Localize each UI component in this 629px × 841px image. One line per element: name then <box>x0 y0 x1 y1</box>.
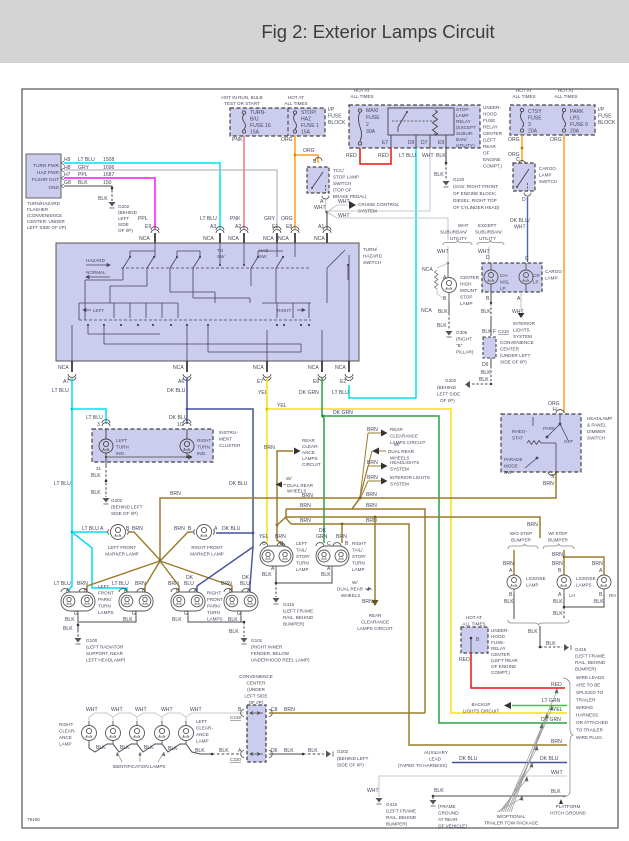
wire BRN to right tail lamp B <box>341 524 343 543</box>
svg-text:PNK: PNK <box>232 137 243 143</box>
svg-text:WHT: WHT <box>111 707 123 713</box>
svg-text:NCA: NCA <box>58 365 69 371</box>
svg-text:RIGHT: RIGHT <box>207 591 221 596</box>
svg-text:79166: 79166 <box>27 817 40 822</box>
svg-text:CLEARANCE: CLEARANCE <box>390 434 418 439</box>
svg-text:STOP: STOP <box>460 295 472 300</box>
G202 flasher ground label <box>118 204 138 233</box>
svg-text:NCA: NCA <box>228 236 239 242</box>
svg-text:D: D <box>486 255 490 261</box>
step bumper labels <box>510 531 569 543</box>
svg-text:LEFT: LEFT <box>196 719 207 724</box>
svg-text:BLK: BLK <box>553 611 563 617</box>
svg-text:E7: E7 <box>257 379 263 385</box>
svg-text:(CONVENIENCE: (CONVENIENCE <box>27 213 62 218</box>
svg-text:BLOCK: BLOCK <box>598 120 616 126</box>
svg-text:HEADLAMP: HEADLAMP <box>587 416 612 421</box>
svg-text:BLK: BLK <box>229 629 239 635</box>
wire BRN to left tail lamp B <box>277 525 284 546</box>
svg-text:SYSTEM: SYSTEM <box>390 467 409 472</box>
svg-text:TAIL/: TAIL/ <box>352 548 363 553</box>
svg-text:TURN-: TURN- <box>250 110 266 116</box>
wire ORG park fuse down to headlamp switch H <box>563 135 565 413</box>
svg-text:WHT: WHT <box>338 199 350 205</box>
svg-text:HOT IN RUN, BULB: HOT IN RUN, BULB <box>221 95 262 100</box>
WHT chain wires <box>89 713 244 721</box>
svg-text:G202: G202 <box>118 204 130 209</box>
svg-text:OF I/P): OF I/P) <box>249 700 264 705</box>
svg-text:LEFT HEADLAMP): LEFT HEADLAMP) <box>86 658 126 663</box>
brace left <box>443 240 472 245</box>
lamp LEFT FRONT PARK/TURN 1 <box>61 589 95 616</box>
relay caption STOP-LAMP RELAY <box>456 107 476 148</box>
cluster internal line with arrow <box>106 455 192 459</box>
switch caption <box>363 247 383 265</box>
svg-text:I/P: I/P <box>598 107 605 113</box>
svg-text:DK GRN: DK GRN <box>541 717 561 723</box>
svg-text:LICENSE: LICENSE <box>576 576 596 581</box>
svg-text:D6: D6 <box>271 748 278 754</box>
svg-text:GROUND:: GROUND: <box>438 811 460 816</box>
svg-text:BRN: BRN <box>367 427 378 433</box>
svg-text:LAMPS: LAMPS <box>207 617 223 622</box>
svg-text:A: A <box>443 275 447 281</box>
svg-text:FUSE: FUSE <box>598 114 612 120</box>
svg-text:LEFT FRONT: LEFT FRONT <box>108 545 136 550</box>
ground G101 <box>241 638 248 643</box>
svg-text:DIESEL: RIGHT TOP: DIESEL: RIGHT TOP <box>453 198 497 203</box>
ground G305 <box>446 331 453 336</box>
svg-text:BRN: BRN <box>551 739 562 745</box>
svg-text:1508: 1508 <box>103 157 114 163</box>
svg-text:BLK: BLK <box>546 641 556 647</box>
svg-text:STOP LAMP: STOP LAMP <box>333 175 359 180</box>
identification lamp 4 <box>155 721 170 744</box>
lamp RIGHT FRONT PARK/TURN 4 <box>224 589 258 616</box>
svg-text:COMPT.): COMPT.) <box>491 670 510 675</box>
svg-text:3: 3 <box>528 122 531 128</box>
svg-text:STAT: STAT <box>512 436 523 441</box>
svg-text:BRN: BRN <box>170 491 181 497</box>
svg-text:SUBUR-: SUBUR- <box>456 131 474 136</box>
I/P fuse block dashed box (right) <box>510 105 595 135</box>
fuse CTSY FUSE 3 20A <box>520 108 523 132</box>
svg-text:DK BLU: DK BLU <box>229 481 248 487</box>
svg-text:(TOP OF: (TOP OF <box>333 188 352 193</box>
svg-text:SIDE OF I/P): SIDE OF I/P) <box>111 511 138 516</box>
svg-text:BLK: BLK <box>98 196 108 202</box>
junction dot LT BLU at 409 <box>71 408 74 411</box>
svg-text:HOOD: HOOD <box>483 112 497 117</box>
svg-text:MSL: MSL <box>500 280 510 285</box>
svg-text:G305: G305 <box>456 330 468 335</box>
junction dot WHT chmsl <box>447 262 450 265</box>
feeds from top pins to row1 <box>130 243 295 265</box>
junction dot WHT <box>326 211 329 214</box>
svg-text:RAIL, BEHIND: RAIL, BEHIND <box>386 815 417 820</box>
svg-text:ARE TO BE: ARE TO BE <box>576 683 600 688</box>
svg-text:CENTER: CENTER <box>460 275 480 280</box>
w/ dual rear wheels tag (brn fan) <box>372 442 415 461</box>
svg-text:BLK: BLK <box>91 490 101 496</box>
wire BRN left marker B to X <box>129 532 160 560</box>
identification lamp 2 <box>106 721 121 744</box>
svg-text:BRN: BRN <box>135 581 146 587</box>
svg-text:OF VEHICLE): OF VEHICLE) <box>438 824 467 829</box>
svg-text:LICENSE: LICENSE <box>526 576 546 581</box>
svg-text:BRN: BRN <box>264 445 275 451</box>
svg-text:LT BLU: LT BLU <box>399 153 416 159</box>
svg-text:LEFT: LEFT <box>296 541 307 546</box>
caption WIRE LEADS <box>576 675 609 740</box>
svg-text:NCA: NCA <box>308 365 319 371</box>
svg-text:BRN: BRN <box>132 526 143 532</box>
svg-text:MENT: MENT <box>219 437 232 442</box>
flasher caption <box>27 201 67 230</box>
fuse STOP/HAZ FUSE 1 15A <box>293 111 296 133</box>
svg-text:ORG: ORG <box>281 137 293 143</box>
arrow to cruise control system <box>349 201 356 209</box>
turn/hazard flasher box <box>26 154 61 198</box>
svg-text:BLK: BLK <box>284 748 294 754</box>
svg-text:A: A <box>558 592 562 598</box>
svg-text:REAR: REAR <box>302 438 315 443</box>
svg-text:SWITCH: SWITCH <box>587 436 605 441</box>
svg-text:SUBURBAN/: SUBURBAN/ <box>440 230 468 235</box>
svg-text:IND.: IND. <box>116 451 125 456</box>
backup lights arrow + LT GRN <box>463 702 500 714</box>
svg-text:MODE: MODE <box>504 464 518 469</box>
svg-text:LEAD: LEAD <box>429 757 442 762</box>
svg-text:TURN PWR: TURN PWR <box>33 163 59 169</box>
row 2 dots <box>87 324 310 326</box>
svg-text:LT BLU: LT BLU <box>332 390 349 396</box>
svg-text:WHT: WHT <box>422 153 434 159</box>
svg-text:G100: G100 <box>86 638 98 643</box>
caption REAR CLEARANCE LAMPS CIRCUIT (column) <box>357 613 393 631</box>
svg-text:10: 10 <box>177 422 183 428</box>
svg-text:BLK: BLK <box>551 789 561 795</box>
svg-text:RELAY: RELAY <box>483 125 498 130</box>
svg-text:BLK: BLK <box>481 370 491 376</box>
junction dot YEL <box>266 408 269 411</box>
svg-text:TURN: TURN <box>207 610 220 615</box>
bottom pin stubs <box>72 361 349 372</box>
svg-text:WIRING: WIRING <box>576 705 594 710</box>
svg-text:ANCE: ANCE <box>196 732 209 737</box>
svg-text:COMPT.): COMPT.) <box>483 164 502 169</box>
svg-text:(UNDER LEFT: (UNDER LEFT <box>500 353 531 358</box>
svg-text:TURN: TURN <box>296 561 309 566</box>
ground G120 <box>443 181 450 186</box>
svg-text:SIDE: SIDE <box>118 222 129 227</box>
HAZARD / NORMAL labels <box>86 258 110 279</box>
wire PNK fuse16 to switch A2 <box>243 136 245 229</box>
svg-text:CLUSTER: CLUSTER <box>219 443 241 448</box>
left clearance lamp 5 <box>179 721 194 744</box>
svg-text:WHT: WHT <box>437 249 449 255</box>
svg-text:OF I/P): OF I/P) <box>440 398 455 403</box>
svg-text:LT GRN: LT GRN <box>542 698 561 704</box>
svg-text:A3: A3 <box>210 224 216 230</box>
svg-text:C210: C210 <box>498 329 509 334</box>
lamp RIGHT FRONT PARK/TURN 3 <box>171 589 205 616</box>
svg-text:HIGH: HIGH <box>460 282 471 287</box>
svg-text:YEL: YEL <box>259 534 269 540</box>
svg-text:BUMPER: BUMPER <box>548 538 568 543</box>
svg-text:G415: G415 <box>575 647 587 652</box>
svg-text:MAXI: MAXI <box>366 108 378 114</box>
svg-text:LEFT: LEFT <box>116 438 127 443</box>
svg-text:HOT AT: HOT AT <box>558 88 574 93</box>
svg-text:(LEFT: (LEFT <box>483 138 496 143</box>
wire BRN W/ step split <box>563 550 565 557</box>
svg-text:PNK: PNK <box>230 216 241 222</box>
svg-text:WHT: WHT <box>190 707 202 713</box>
svg-text:OFF: OFF <box>564 439 573 444</box>
svg-text:& PANEL: & PANEL <box>587 423 607 428</box>
svg-text:BACKUP: BACKUP <box>472 702 491 707</box>
svg-text:BRN: BRN <box>543 481 554 487</box>
wire DK GRN branch right <box>323 416 567 723</box>
wire BRN rear clearance column <box>374 517 376 600</box>
svg-text:LP: LP <box>500 286 506 291</box>
svg-text:SW: SW <box>217 254 225 259</box>
license lamp LH <box>557 575 571 594</box>
svg-text:D6: D6 <box>482 362 489 368</box>
svg-text:BLK: BLK <box>65 617 75 623</box>
wire LT GRN backup stub <box>512 705 567 707</box>
wire ORG branch to TCC switch B <box>295 155 318 163</box>
svg-text:WHT: WHT <box>551 770 563 776</box>
svg-text:G415: G415 <box>283 602 295 607</box>
svg-text:CENTER: CENTER <box>491 652 511 657</box>
svg-text:OF I/P): OF I/P) <box>118 228 133 233</box>
svg-text:BLU: BLU <box>240 581 250 587</box>
svg-text:BLK: BLK <box>195 748 205 754</box>
svg-text:BLK: BLK <box>262 572 272 578</box>
instrument cluster dashed box <box>92 429 213 462</box>
svg-text:2: 2 <box>366 122 369 128</box>
wire BLK tail lamps to G415 <box>276 571 332 583</box>
svg-text:TRAILER: TRAILER <box>576 698 596 703</box>
svg-text:"B": "B" <box>456 343 463 348</box>
switch interior row 1 (hazard contacts) <box>121 250 345 268</box>
svg-text:BRN: BRN <box>366 503 377 509</box>
svg-text:ANCE: ANCE <box>302 450 315 455</box>
svg-text:BUMPER): BUMPER) <box>575 667 597 672</box>
wire LT BLU A7 long run down left <box>69 378 72 592</box>
svg-text:BRN: BRN <box>275 534 286 540</box>
wire WHT suburban branch <box>447 232 449 240</box>
w/ dual rear wheels (left column) <box>276 476 314 494</box>
svg-text:SWITCH: SWITCH <box>333 181 351 186</box>
svg-text:FUSE 1: FUSE 1 <box>301 123 319 129</box>
wire PPL 1687 flasher to switch E9 <box>64 178 155 229</box>
I/P fuse block dashed box <box>230 108 325 136</box>
svg-text:FUSE 16: FUSE 16 <box>250 123 271 129</box>
svg-text:NCA: NCA <box>335 365 346 371</box>
svg-text:LEFT SIDE: LEFT SIDE <box>437 392 460 397</box>
svg-text:WHT: WHT <box>514 225 526 231</box>
svg-text:HEADLIGHTS: HEADLIGHTS <box>390 460 419 465</box>
bulb LEFT TURN IND <box>99 429 113 462</box>
svg-text:LT BLU: LT BLU <box>200 216 217 222</box>
svg-text:BRN: BRN <box>552 561 563 567</box>
svg-text:BLOCK: BLOCK <box>328 120 346 126</box>
row 1 contact dots <box>129 256 349 266</box>
svg-text:(UNDER: (UNDER <box>247 687 266 692</box>
svg-text:DK BLU: DK BLU <box>540 756 559 762</box>
svg-text:UNDERHOOD REEL LAMP): UNDERHOOD REEL LAMP) <box>251 658 310 663</box>
svg-text:HOT AT: HOT AT <box>354 88 370 93</box>
svg-text:NCA: NCA <box>203 236 214 242</box>
svg-text:FUSE-: FUSE- <box>491 640 505 645</box>
svg-text:REAR: REAR <box>390 427 403 432</box>
svg-text:ORG: ORG <box>281 216 293 222</box>
svg-text:BLK: BLK <box>438 309 448 315</box>
bulb CH-MSL LP <box>484 263 498 292</box>
svg-text:DK BLU: DK BLU <box>167 388 186 394</box>
svg-text:BRN: BRN <box>284 707 295 713</box>
svg-text:H9: H9 <box>64 157 71 163</box>
svg-text:PPL: PPL <box>138 216 148 222</box>
svg-text:WHT: WHT <box>367 788 379 794</box>
svg-text:A: A <box>509 568 513 574</box>
svg-text:FRONT: FRONT <box>207 597 223 602</box>
switch interior <box>525 414 568 472</box>
arrow HEADLIGHTS SYSTEM <box>368 465 381 467</box>
svg-text:ORG: ORG <box>508 137 520 143</box>
brace right license <box>543 544 574 550</box>
svg-text:RAIL, BEHIND: RAIL, BEHIND <box>283 615 314 620</box>
platform hitch ground <box>559 799 563 804</box>
svg-text:A6: A6 <box>178 379 184 385</box>
svg-text:B: B <box>599 592 603 598</box>
LEFT / RIGHT dashed row <box>79 308 311 320</box>
ground G415 (license) <box>564 644 569 651</box>
svg-text:BRN: BRN <box>221 581 232 587</box>
svg-text:BRN: BRN <box>362 599 373 605</box>
svg-text:G8: G8 <box>64 180 71 186</box>
wire WHT cargo lamp A to interior lights <box>520 292 522 312</box>
svg-text:GND: GND <box>48 185 59 191</box>
svg-text:LAMP: LAMP <box>352 567 365 572</box>
svg-text:(RIGHT: (RIGHT <box>456 337 472 342</box>
svg-text:B: B <box>486 296 490 302</box>
fuse PARK LPS FUSE 9 20A <box>562 108 565 132</box>
svg-text:NCA: NCA <box>278 236 289 242</box>
svg-text:TURN: TURN <box>116 445 129 450</box>
svg-text:IND.: IND. <box>197 451 206 456</box>
lower interior connections to bottom pins <box>72 255 349 361</box>
svg-text:(BEHIND LEFT: (BEHIND LEFT <box>337 756 369 761</box>
svg-text:CENTER: CENTER <box>500 347 520 352</box>
svg-text:MARKER LAMP: MARKER LAMP <box>190 552 223 557</box>
svg-text:HOT AT: HOT AT <box>466 615 482 620</box>
svg-text:ORG: ORG <box>550 137 562 143</box>
wire BLK lamp1/2 to G100 <box>79 616 136 622</box>
svg-text:FUSE: FUSE <box>483 118 495 123</box>
svg-text:B: B <box>476 637 480 643</box>
svg-text:AUXILIARY: AUXILIARY <box>424 750 448 755</box>
caption UNDERHOOD FUSE RELAY CENTER <box>483 105 503 169</box>
svg-text:STOP/: STOP/ <box>296 554 310 559</box>
svg-text:LAMP: LAMP <box>296 567 309 572</box>
svg-text:BRN: BRN <box>300 518 311 524</box>
BRN bus3 (trailer) <box>285 517 291 524</box>
wire BRN W/O step to license lamp <box>513 550 515 575</box>
svg-text:RAIL, BEHIND: RAIL, BEHIND <box>575 660 606 665</box>
svg-text:31: 31 <box>96 466 102 471</box>
svg-text:BLK: BLK <box>219 748 229 754</box>
svg-text:OF ENGINE BLOCK;: OF ENGINE BLOCK; <box>453 191 496 196</box>
svg-text:(GAS: RIGHT FRONT: (GAS: RIGHT FRONT <box>453 184 498 189</box>
wire LT BLU branch to cluster pin 3 <box>72 409 106 424</box>
svg-text:DK BLU: DK BLU <box>459 756 478 762</box>
wire BLK dashed to ground <box>111 190 113 201</box>
svg-text:(BEHIND: (BEHIND <box>437 385 457 390</box>
wire DK BLU down to cluster pin 10 <box>186 409 188 424</box>
fuse MAXI FUSE 2 30A <box>358 109 361 145</box>
svg-text:LAMPS CIRCUIT: LAMPS CIRCUIT <box>357 626 393 631</box>
svg-text:SPLICED TO: SPLICED TO <box>576 690 604 695</box>
junction dot right tail feed <box>341 523 344 526</box>
wire LT BLU relay D9 down to switch E2 <box>349 148 416 398</box>
arrow REAR CLEARANCE LAMPS CIRCUIT <box>368 432 381 434</box>
svg-text:BUMPER: BUMPER <box>511 538 531 543</box>
wire BLK license lamps join <box>563 594 565 607</box>
svg-text:ORG: ORG <box>303 148 315 154</box>
svg-text:OR ATTACHED: OR ATTACHED <box>576 720 609 725</box>
svg-text:BRN: BRN <box>300 503 311 509</box>
top pin connectors <box>151 227 331 233</box>
svg-text:UNDER-: UNDER- <box>483 105 501 110</box>
svg-text:W/OPTIONAL: W/OPTIONAL <box>497 814 526 819</box>
svg-text:B: B <box>345 541 349 547</box>
license lamp (W/O step) <box>507 575 521 594</box>
svg-text:TURN: TURN <box>98 604 111 609</box>
svg-text:BUMPER): BUMPER) <box>386 822 408 827</box>
svg-text:LEFT SIDE OF I/P): LEFT SIDE OF I/P) <box>27 225 67 230</box>
svg-text:HAZ: HAZ <box>259 248 268 253</box>
wire BLK license lamp down <box>513 594 515 619</box>
header bar <box>0 0 629 63</box>
ground frame (at rear of vehicle) <box>430 800 437 805</box>
svg-text:SYSTEM: SYSTEM <box>390 482 409 487</box>
svg-text:DUAL REAR: DUAL REAR <box>337 587 364 592</box>
svg-text:OF: OF <box>483 151 490 156</box>
svg-text:LT BLU: LT BLU <box>52 388 69 394</box>
svg-text:B: B <box>126 526 130 532</box>
svg-text:W/ STEP: W/ STEP <box>549 531 568 536</box>
wire BLK 150 flasher to G202 <box>64 186 112 190</box>
bus2 left elbow to left tail B <box>277 509 286 525</box>
caption RIGHT CLEARANCE LAMP <box>59 722 76 747</box>
convenience center box (bottom) <box>247 705 266 762</box>
G120 label <box>453 177 500 210</box>
svg-text:B: B <box>509 592 513 598</box>
svg-text:LT BLU: LT BLU <box>54 481 71 487</box>
svg-text:E2: E2 <box>340 379 346 385</box>
arrow INTERIOR LIGHTS SYSTEM <box>368 480 381 482</box>
svg-text:BAN/: BAN/ <box>456 137 467 142</box>
wire LT BLU 1508 flasher to switch A3 <box>64 163 220 229</box>
BLK dashed to conv center A <box>211 753 214 756</box>
svg-text:CONVENIENCE: CONVENIENCE <box>500 340 534 345</box>
svg-text:HOOD: HOOD <box>491 634 505 639</box>
svg-text:C: C <box>262 541 266 547</box>
